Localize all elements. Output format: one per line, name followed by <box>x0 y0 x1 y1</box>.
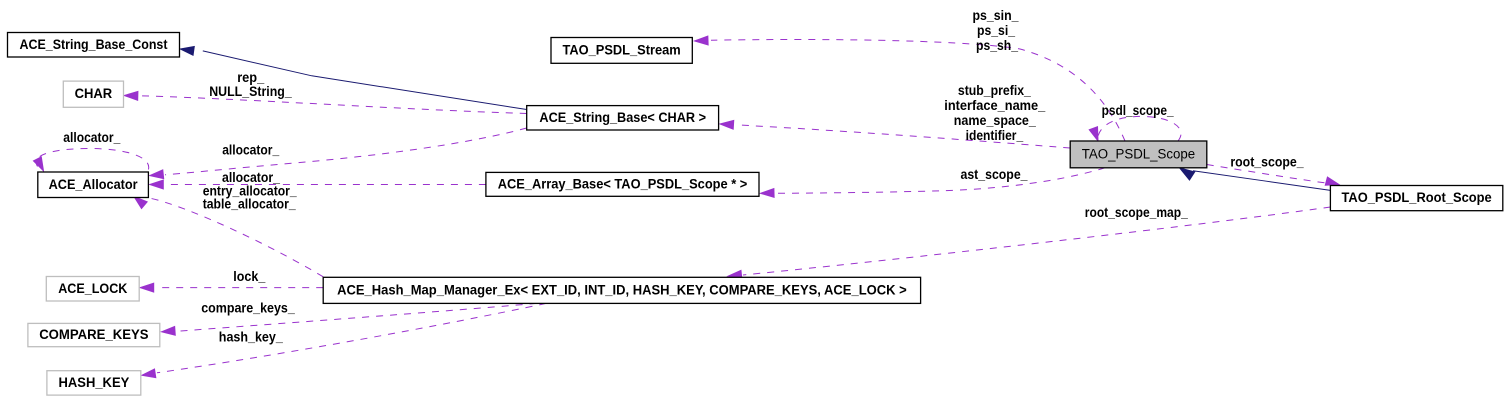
svg-text:allocator_: allocator_ <box>222 143 279 158</box>
svg-text:TAO_PSDL_Scope: TAO_PSDL_Scope <box>1082 146 1195 161</box>
svg-text:rep_: rep_ <box>237 70 264 85</box>
svg-text:interface_name_: interface_name_ <box>944 98 1045 113</box>
svg-text:name_space_: name_space_ <box>954 113 1036 128</box>
svg-text:ACE_String_Base< CHAR >: ACE_String_Base< CHAR > <box>539 110 706 125</box>
svg-text:ACE_Allocator: ACE_Allocator <box>49 177 139 192</box>
svg-text:compare_keys_: compare_keys_ <box>201 301 295 316</box>
svg-text:identifier_: identifier_ <box>966 128 1024 143</box>
svg-text:root_scope_map_: root_scope_map_ <box>1085 205 1188 220</box>
svg-text:ACE_String_Base_Const: ACE_String_Base_Const <box>20 37 168 52</box>
svg-text:allocator_: allocator_ <box>63 130 120 145</box>
svg-text:TAO_PSDL_Root_Scope: TAO_PSDL_Root_Scope <box>1342 190 1493 205</box>
svg-text:ps_sin_: ps_sin_ <box>973 8 1019 23</box>
svg-text:ACE_Array_Base< TAO_PSDL_Scope: ACE_Array_Base< TAO_PSDL_Scope * > <box>498 176 748 191</box>
svg-text:ps_sh_: ps_sh_ <box>976 38 1018 53</box>
svg-text:ast_scope_: ast_scope_ <box>961 167 1028 182</box>
svg-text:root_scope_: root_scope_ <box>1230 155 1304 170</box>
svg-text:ps_si_: ps_si_ <box>977 23 1015 38</box>
svg-text:CHAR: CHAR <box>75 86 113 101</box>
svg-text:COMPARE_KEYS: COMPARE_KEYS <box>39 327 148 342</box>
svg-text:stub_prefix_: stub_prefix_ <box>958 83 1031 98</box>
svg-text:psdl_scope_: psdl_scope_ <box>1102 103 1174 118</box>
svg-text:ACE_LOCK: ACE_LOCK <box>58 281 127 296</box>
svg-text:TAO_PSDL_Stream: TAO_PSDL_Stream <box>562 42 680 57</box>
svg-text:ACE_Hash_Map_Manager_Ex< EXT_I: ACE_Hash_Map_Manager_Ex< EXT_ID, INT_ID,… <box>337 282 907 297</box>
svg-text:hash_key_: hash_key_ <box>219 330 283 345</box>
svg-text:NULL_String_: NULL_String_ <box>209 84 292 99</box>
svg-text:table_allocator_: table_allocator_ <box>203 197 296 212</box>
svg-text:HASH_KEY: HASH_KEY <box>59 375 130 390</box>
svg-text:lock_: lock_ <box>233 269 265 284</box>
